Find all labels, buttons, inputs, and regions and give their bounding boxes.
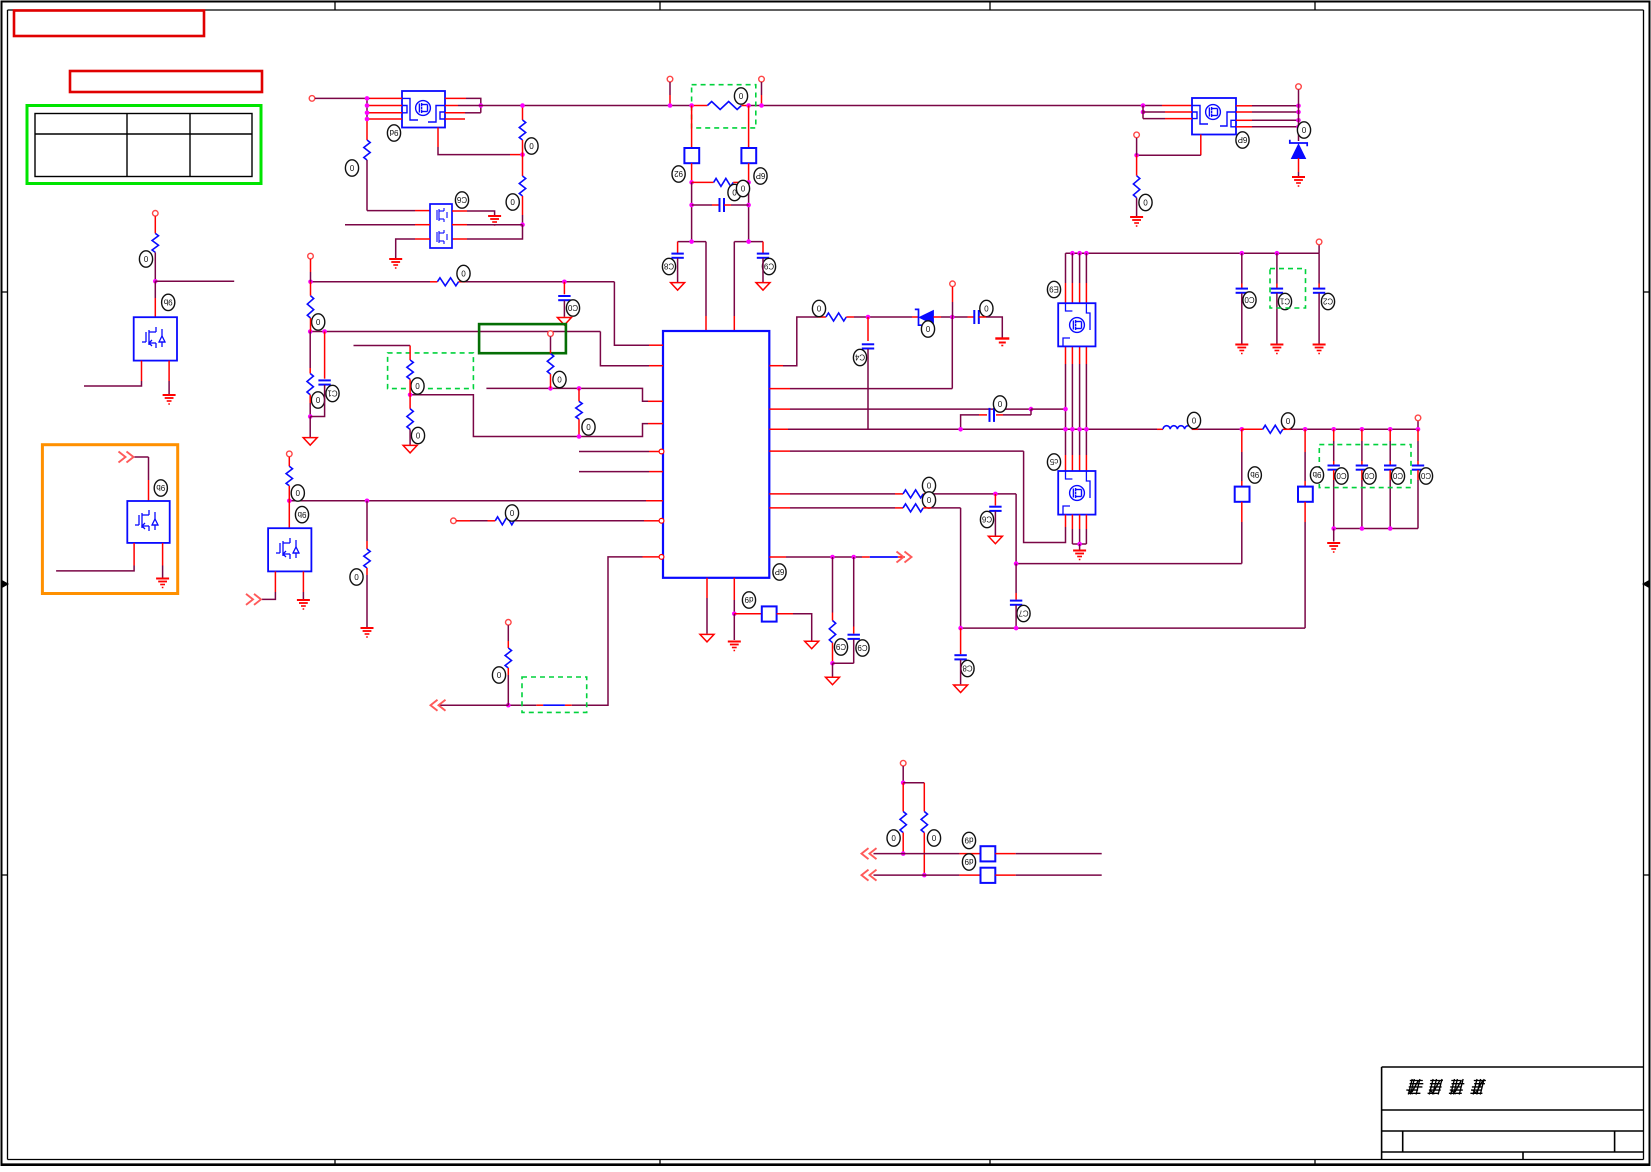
wire sense riser [1015, 564, 1017, 593]
junction gate net [1134, 153, 1139, 158]
resistor R20 [286, 466, 292, 486]
wire R8 to D3 [854, 316, 912, 318]
wire QB gnd [1071, 529, 1073, 544]
label R4 [506, 194, 519, 210]
ground R7 [1130, 217, 1143, 226]
wire C7 to F2 node [731, 204, 749, 206]
ground R15 [303, 438, 317, 446]
pin stub QB top [1071, 455, 1073, 471]
pin stub QA bottom [1079, 346, 1081, 364]
wire highlighted net 2 [543, 704, 565, 706]
svg-text:C4: C4 [854, 353, 865, 362]
label Cout3 [1391, 468, 1404, 484]
wire M1 to ground [168, 381, 170, 394]
zone ticks top [335, 2, 1315, 10]
junction VIN rail [1070, 251, 1075, 256]
wire fb net a [572, 704, 587, 706]
wire phase to QA [1031, 408, 1066, 410]
pin stub net seg [862, 556, 870, 558]
wire fb net b [508, 704, 536, 706]
wire ss net [289, 500, 646, 502]
label R20 [291, 485, 304, 501]
pin stub Q1.4 [367, 118, 402, 120]
transistor U2 box [430, 204, 452, 248]
wire M2 source out [56, 566, 134, 571]
label C14 [853, 349, 866, 365]
pin stub U2.2 [415, 224, 430, 226]
wire QA-QB [1065, 364, 1067, 455]
label C17 [1017, 605, 1030, 621]
pin stub R20 top [288, 457, 290, 466]
pin stub M2 source [133, 543, 135, 566]
ground R19 [403, 445, 417, 453]
label R9 [1281, 413, 1294, 429]
pin stub U1 L3 [648, 400, 663, 402]
resistor R22 [495, 517, 514, 525]
pin stub R6 left [692, 181, 714, 183]
wire gnd stem [1333, 529, 1335, 542]
pin stub R15 bottom [309, 395, 311, 403]
transistor TR1 box [1192, 98, 1236, 135]
label TR1 [1236, 132, 1249, 148]
pin stub [1389, 461, 1391, 465]
highlight box R18 [388, 353, 474, 389]
pin stub QA bottom [1085, 346, 1087, 364]
wire VIN2 to U1 [733, 242, 735, 316]
wire TR1 out2 [1252, 111, 1299, 113]
pin stub R22 left [488, 520, 496, 522]
resistor R18 [407, 360, 413, 379]
label D2 [1297, 122, 1310, 138]
pin P15 [900, 760, 906, 766]
junction node A [689, 239, 694, 244]
wire vcc net [310, 331, 600, 333]
label F1 [672, 166, 685, 182]
wire R3 to fb [522, 140, 524, 155]
wire U2.5 to junction [467, 224, 523, 226]
label R10 [922, 477, 935, 493]
label R11 [922, 492, 935, 508]
svg-text:C0: C0 [1420, 471, 1431, 480]
pin stub QA top [1079, 283, 1081, 303]
pin stub L1 left [1157, 428, 1163, 430]
wire C19 bottom [853, 639, 855, 663]
label R16 [553, 371, 566, 387]
resistor R4 [519, 176, 525, 196]
pin stub U1 R7 [769, 507, 790, 509]
label R23 [492, 667, 505, 683]
pin stub F4 top [1304, 429, 1306, 452]
wire C11 bottom [1276, 293, 1278, 343]
pin stub cap bottom [1417, 470, 1419, 480]
svg-text:0: 0 [586, 422, 591, 431]
ground C20 [557, 318, 571, 326]
resistor R5 (sense) [707, 102, 741, 110]
fuse F3 [1235, 487, 1250, 502]
junction phase [1063, 407, 1068, 412]
pin stub U1 R4 [769, 428, 788, 430]
svg-text:0: 0 [1301, 125, 1306, 134]
pin stub QB top [1085, 455, 1087, 471]
wire U2 loop [467, 225, 523, 239]
pin P5 [1134, 132, 1140, 138]
capacitor C15 [990, 408, 995, 422]
ground U1 B2 [728, 642, 741, 651]
wire U1 R6 [790, 493, 895, 495]
option box (orange) [42, 445, 177, 594]
pin stub C15 left [979, 414, 987, 416]
wire F3 down [1241, 522, 1243, 564]
pin stub P7 [952, 287, 954, 302]
wire P1 to Q1 [315, 97, 370, 99]
capacitor C14 [862, 344, 874, 348]
label C21 [326, 385, 339, 401]
svg-text:C0: C0 [567, 303, 578, 312]
resistor R11 [903, 504, 923, 512]
wire F4 top [1304, 452, 1306, 481]
junction U2 gate [520, 222, 525, 227]
wire B1 to ground [706, 598, 708, 634]
ground C12 [1313, 345, 1326, 354]
transistor M3 box [268, 528, 311, 571]
ground M1 [163, 395, 176, 404]
pin stub U2.4 [452, 210, 467, 212]
ground R21 [361, 628, 374, 637]
wire snubber drop [1030, 409, 1032, 415]
pin stub C11 [1276, 284, 1278, 289]
svg-text:6P: 6P [756, 171, 766, 180]
svg-text:6P: 6P [1238, 135, 1248, 144]
wire F4 down [1304, 522, 1306, 628]
pin stub U1 R6 [769, 493, 790, 495]
pin stub [1417, 461, 1419, 465]
junction M3 gate [287, 499, 292, 504]
junction out cap [1360, 427, 1365, 432]
transistor QB box [1058, 471, 1095, 515]
pin stub U1 R8 [769, 556, 786, 558]
svg-text:C0: C0 [1364, 471, 1375, 480]
pin P1 [309, 96, 315, 102]
wire node A [678, 241, 706, 243]
junction F1 [689, 180, 694, 185]
svg-text:C9: C9 [857, 643, 868, 652]
label F6 [962, 832, 975, 848]
junction F2 [746, 180, 751, 185]
inductor L1 [1163, 426, 1192, 430]
ground C9 [756, 283, 770, 291]
pin stub U1 L9 [643, 556, 660, 558]
pin stub TR1 out2 [1236, 111, 1252, 113]
svg-text:C7: C7 [1018, 609, 1029, 618]
pin stub C17 top [1015, 593, 1017, 600]
resistor R17 [576, 401, 582, 419]
transistor M2 box [127, 501, 169, 543]
wire to ground [309, 417, 311, 438]
pin stub M1 drain [154, 298, 156, 317]
svg-text:0: 0 [925, 324, 930, 333]
junction vcc a [308, 329, 313, 334]
junction gnd bus 1 [1331, 526, 1336, 531]
wire to C7 [692, 204, 712, 206]
pin stub R5 right [741, 105, 748, 107]
wire TR1 pin3 [1143, 118, 1165, 120]
pin stub P12 [456, 520, 470, 522]
ic U1 box [663, 331, 769, 578]
pin stub M1 pin3 [168, 361, 170, 381]
ground U1 B1 [700, 634, 714, 642]
label F3 [1248, 467, 1261, 483]
label C20 [566, 300, 579, 316]
wire M1 stub [155, 280, 234, 282]
capacitor C20 [558, 296, 570, 300]
wire Q1 out3 tie [465, 112, 481, 114]
highlight box C11 [1270, 269, 1306, 308]
wire U1 R7 [790, 507, 895, 509]
zone ticks left [2, 292, 8, 875]
pin stub U1 L6 [649, 471, 663, 473]
pin P12 [451, 518, 457, 524]
pin stub F3 [1241, 481, 1243, 487]
resistor R8 [826, 313, 846, 321]
wire C18 to ground [960, 660, 962, 685]
junction TR1 out2 [1296, 110, 1301, 115]
svg-text:0: 0 [354, 572, 359, 581]
label Cout4 [1419, 468, 1432, 484]
transistor TR1 symbol [1206, 105, 1221, 120]
resistor R25 [900, 812, 906, 833]
junction VIN rail [1084, 251, 1089, 256]
wire P4 to D2 [1298, 90, 1300, 142]
label C18 [961, 660, 974, 676]
svg-text:0: 0 [738, 91, 743, 100]
ground C13 [995, 339, 1009, 346]
ground F5 [805, 641, 819, 649]
title block frame [1382, 1067, 1644, 1160]
wire gnd bus [1334, 528, 1418, 530]
pin P4 [1296, 84, 1302, 90]
label L1 [1187, 412, 1200, 428]
resistor R24 [152, 233, 158, 252]
wire R15 top [309, 332, 311, 369]
pin P10 [548, 331, 554, 337]
svg-text:9b: 9b [1250, 470, 1259, 479]
wire QA top [1071, 253, 1073, 283]
wire row2 b [1016, 874, 1102, 876]
label R8 [812, 300, 825, 316]
pin P2 [667, 76, 673, 82]
wire to ground [832, 663, 834, 676]
svg-text:92: 92 [674, 169, 683, 178]
pin stub C21 top [324, 332, 326, 379]
svg-text:C6: C6 [981, 515, 992, 524]
wire fb net c [438, 704, 508, 706]
pin stub U2.5 [452, 224, 467, 226]
diode D3 (zener) [915, 309, 934, 325]
wire QA-QB [1071, 364, 1073, 455]
label QA [1047, 281, 1060, 297]
wire P13 down [507, 625, 509, 641]
label R19 [411, 427, 424, 443]
pin stub seg right [565, 704, 572, 706]
wire cap [1417, 441, 1419, 461]
highlight box (sense resistor) [692, 85, 756, 128]
wire TR1 tie [1142, 106, 1144, 119]
pin stub R14 top [310, 282, 312, 296]
pin stub P3 [761, 95, 763, 106]
capacitor C12 [1313, 289, 1325, 293]
pin stub U1 B2 [733, 578, 735, 600]
wire P10 down [550, 337, 552, 351]
pin stub R25 top [902, 783, 904, 812]
pin stub R13 left [430, 281, 437, 283]
wire cap to gnd bus [1389, 480, 1391, 529]
label R21 [350, 569, 363, 585]
pin stub [1361, 461, 1363, 465]
pin stub R13 right [459, 281, 467, 283]
label Q1 [387, 125, 400, 141]
junction pullups [901, 781, 906, 786]
pin stub M2 pin3 [162, 543, 164, 566]
junction bus P3 [759, 103, 764, 108]
wire R10 out [931, 493, 1016, 495]
junction D3 out [950, 315, 955, 320]
wire cap to gnd bus [1333, 480, 1335, 529]
pin stub U2.3 [415, 238, 430, 240]
label Cout1 [1335, 468, 1348, 484]
svg-text:C6: C6 [456, 195, 467, 204]
wire M1 source out [84, 381, 142, 386]
transistor Q1 box [402, 91, 445, 128]
pin stub R26 bottom [923, 833, 925, 876]
junction snubber [1029, 407, 1034, 412]
pin stub U1 top1 [705, 316, 707, 331]
wire R19 to ground [409, 429, 411, 444]
svg-text:0: 0 [510, 197, 515, 206]
wire C10 bottom [1241, 293, 1243, 343]
pin stub F3 bottom [1241, 502, 1243, 522]
junction R18/R19 [408, 393, 413, 398]
wire U2.4 to ground [467, 211, 495, 215]
label R18 [411, 378, 424, 394]
pin stub cap bottom [1389, 470, 1391, 480]
svg-text:0: 0 [740, 184, 745, 193]
resistor R10 [903, 490, 923, 498]
junction row1 [901, 851, 906, 856]
transistor M3 symbol [276, 538, 299, 559]
junction en [308, 280, 313, 285]
wire M2 gate a [135, 456, 149, 458]
label F7 [962, 854, 975, 870]
resistor R16 [547, 354, 553, 375]
svg-text:C0: C0 [1392, 471, 1403, 480]
wire R21 top [366, 501, 368, 541]
pin stub L1 right [1192, 428, 1198, 430]
net chevron M3 [246, 594, 261, 605]
pin stub F6 right [995, 853, 1015, 855]
net chevron row1 [862, 848, 877, 859]
junction bus P2 [668, 103, 673, 108]
pin stub TR1 out1 [1236, 105, 1252, 107]
svg-text:9d: 9d [390, 128, 399, 137]
junction C19 [851, 555, 856, 560]
wire C14 to bus [867, 349, 869, 429]
junction TR1 out4 [1296, 125, 1301, 130]
pin stub R9 left [1242, 428, 1263, 430]
wire QB gnd [1085, 529, 1087, 544]
fuse F6 [981, 846, 996, 861]
pin stub C15 right [996, 414, 1003, 416]
pin stub F4 [1304, 481, 1306, 487]
pin stub D3 [912, 316, 919, 318]
highlight rect (green) [479, 324, 566, 353]
label C13 [980, 300, 993, 316]
wire P3 down [761, 82, 763, 95]
svg-text:9b: 9b [1312, 470, 1321, 479]
svg-text:C9: C9 [835, 642, 846, 651]
transistor QA inner [1063, 303, 1090, 346]
junction Q1 pins [365, 111, 370, 116]
capacitor Cout [1384, 466, 1396, 470]
pin bubble U1 L9 [659, 555, 664, 560]
highlight box net 2 [522, 677, 587, 712]
junction L4 [577, 434, 582, 439]
pin stub M2 drain [148, 480, 150, 501]
pin stub U1 top2 [733, 316, 735, 331]
junction L3 b [548, 386, 553, 391]
svg-text:0: 0 [891, 833, 896, 842]
wire rail to pin [1318, 245, 1320, 254]
pin stub R18 top [409, 346, 411, 361]
label M1 [162, 294, 175, 310]
wire main bus left [458, 105, 692, 107]
pin stub R2 top [366, 121, 368, 140]
label C9 [762, 258, 775, 274]
wire sense riser top [1015, 494, 1017, 564]
note box 1 (red) [14, 11, 204, 37]
wire F5 to ground [793, 614, 812, 641]
junction C15 bus [958, 427, 963, 432]
wire L4 net [410, 395, 648, 437]
wire L8 net [514, 520, 644, 522]
wire row1 b [1016, 853, 1102, 855]
svg-text:0: 0 [931, 833, 936, 842]
wire R11 out [931, 507, 961, 509]
pin stub R23 top [507, 641, 509, 648]
pin stub R26 top [923, 783, 925, 812]
pin stub F2 bottom [748, 163, 750, 182]
label M2 [154, 480, 167, 496]
pin stub P2 [669, 95, 671, 106]
wire R23 down [507, 675, 509, 705]
capacitor C7 [720, 198, 725, 212]
pin stub R17 bottom [578, 419, 580, 436]
wire U1 R8 [786, 556, 862, 558]
ground QB [1073, 551, 1086, 560]
pin stub R10 right [923, 493, 931, 495]
pin stub F7 right [995, 874, 1015, 876]
pin stub cap top [1333, 429, 1335, 441]
pin stub D3 right [933, 316, 941, 318]
pin stub R8 left [818, 316, 826, 318]
label C7a [728, 184, 741, 200]
svg-text:0: 0 [461, 269, 466, 278]
wire F3 to sense [1016, 563, 1242, 565]
wire cap to gnd bus [1361, 480, 1363, 529]
pin P11 [287, 451, 293, 457]
svg-text:6P: 6P [775, 567, 785, 576]
ground C10 [1235, 345, 1248, 354]
wire L2 riser [600, 332, 649, 366]
